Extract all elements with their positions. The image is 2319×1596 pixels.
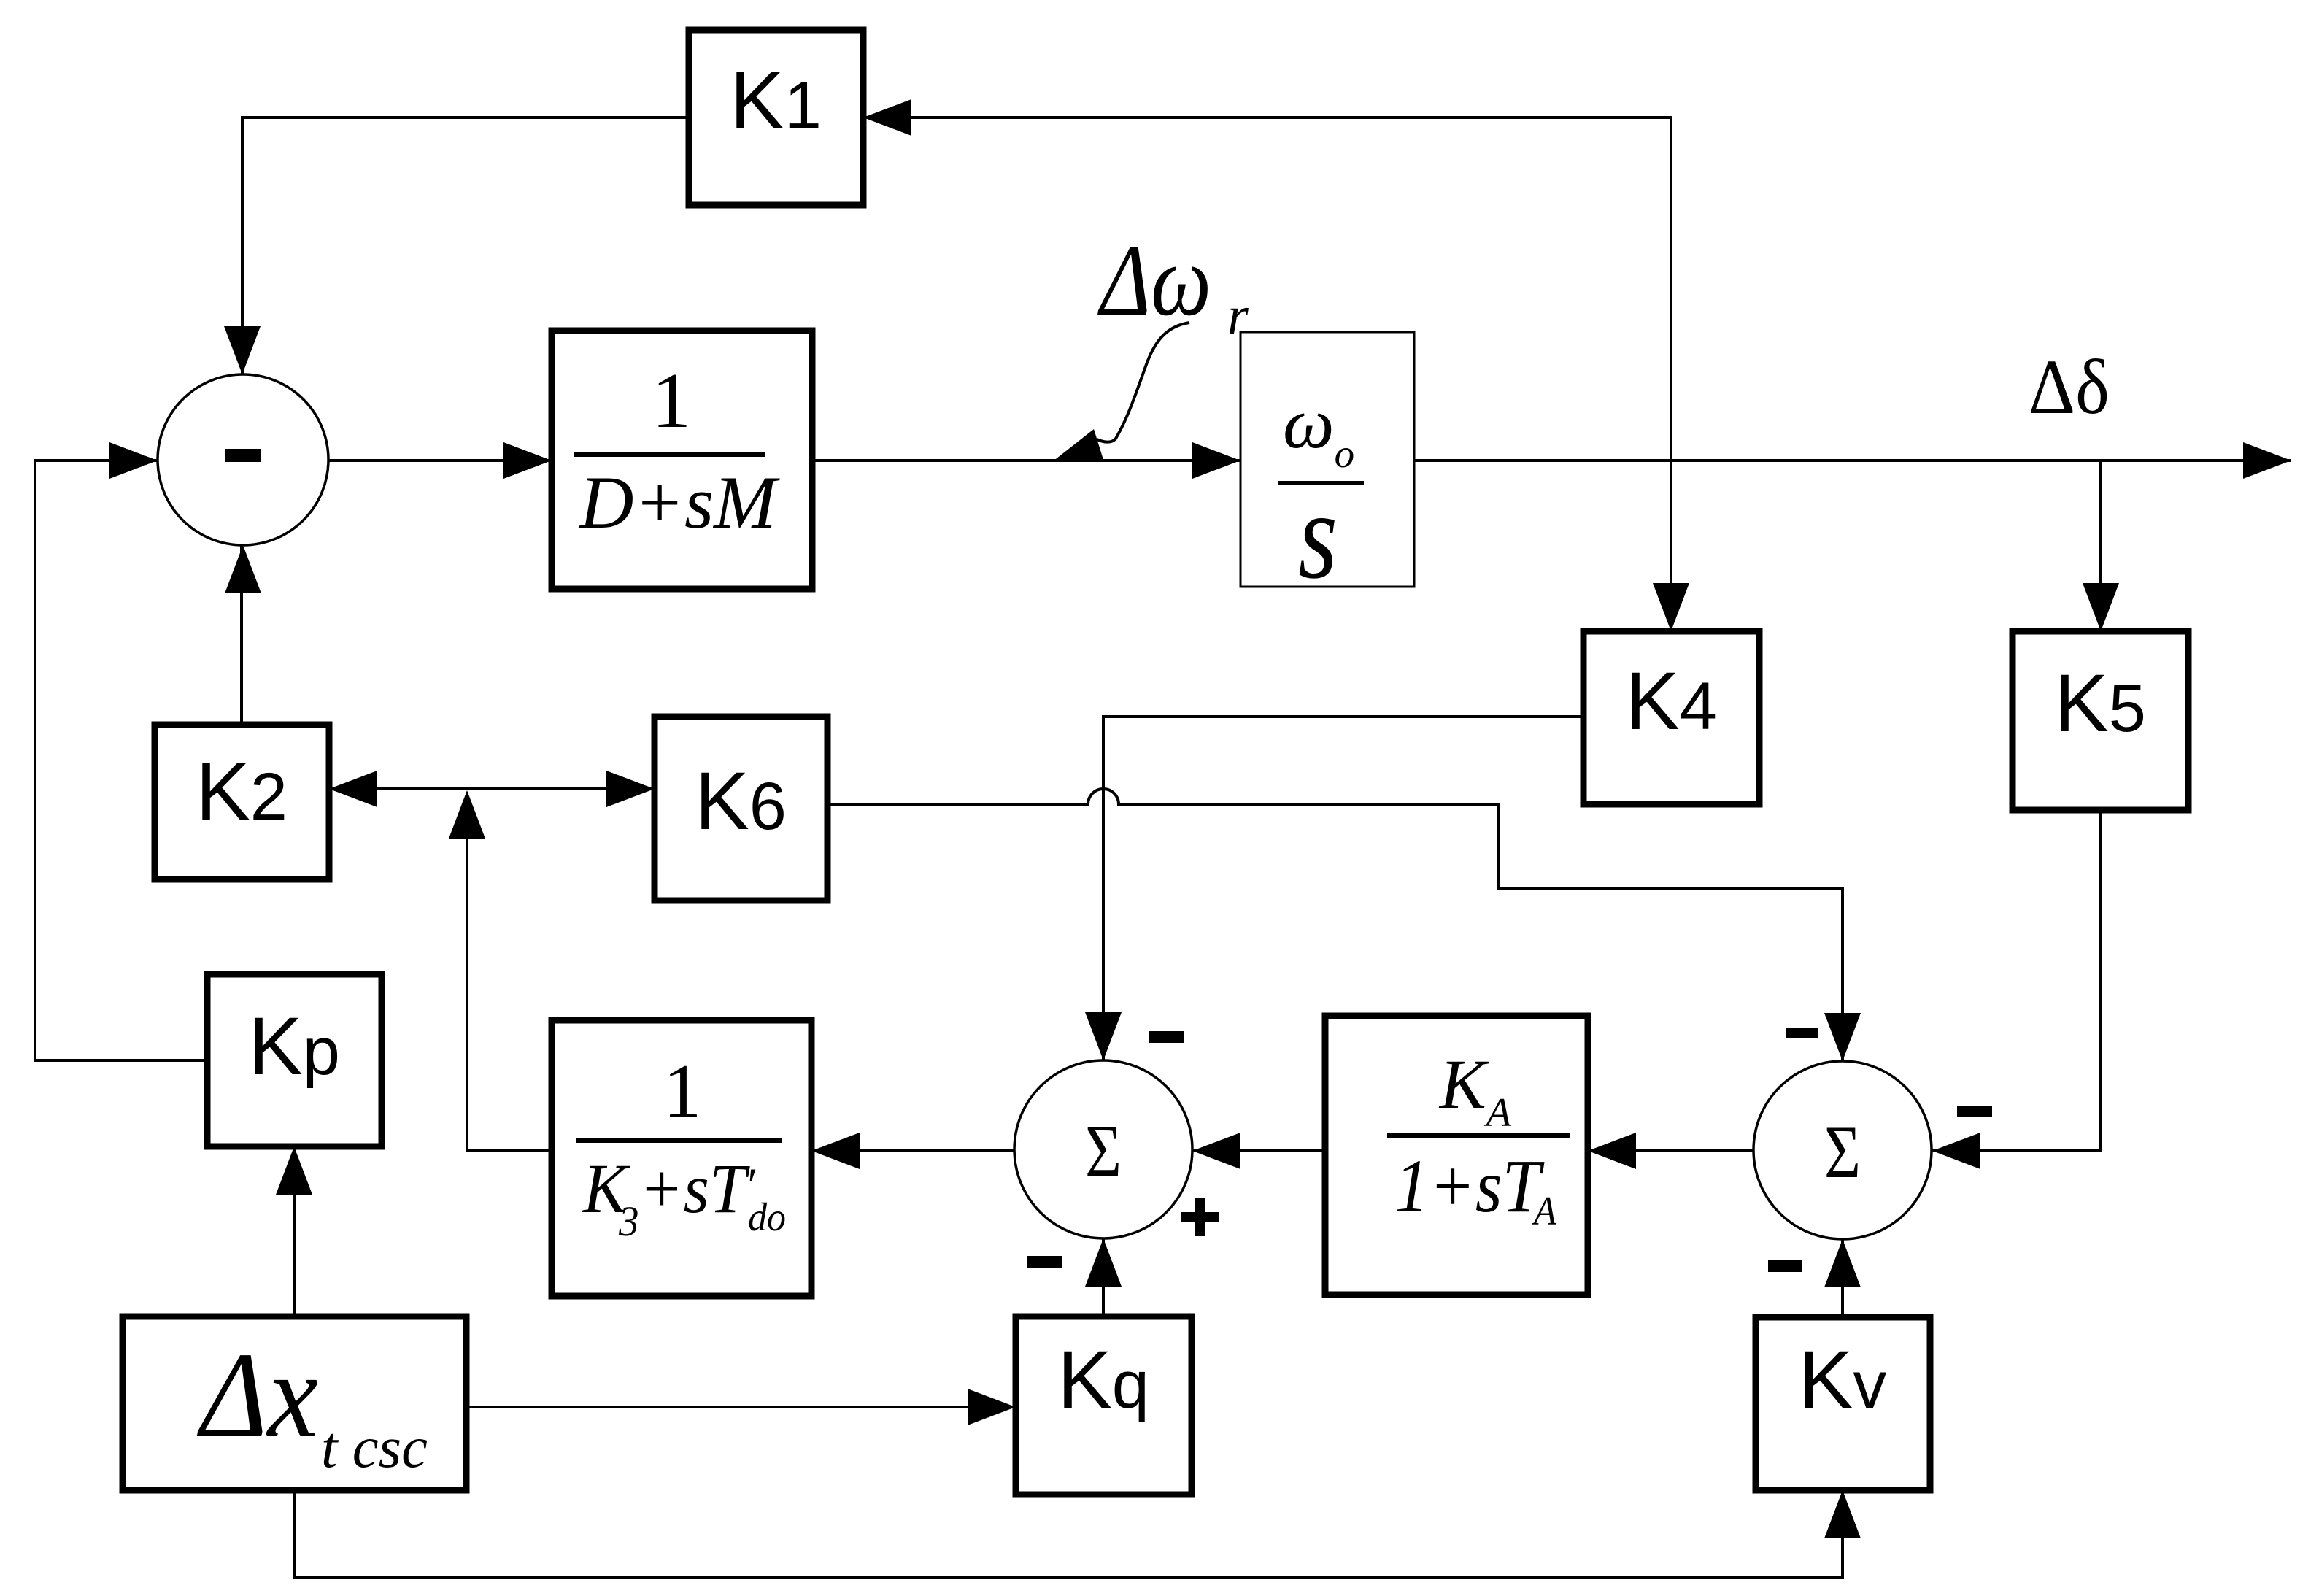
svg-text:Kv: Kv — [1799, 1334, 1887, 1425]
svg-text:r: r — [1227, 286, 1249, 346]
svg-text:K5: K5 — [2054, 658, 2146, 749]
svg-text:K1: K1 — [730, 55, 822, 146]
svg-text:Kq: Kq — [1057, 1334, 1149, 1425]
svg-text:D+sM: D+sM — [578, 461, 780, 544]
svg-text:s: s — [1298, 466, 1338, 605]
svg-text:1: 1 — [652, 358, 691, 444]
svg-text:Δω: Δω — [1097, 224, 1211, 337]
svg-text:K4: K4 — [1625, 655, 1717, 747]
svg-text:K2: K2 — [196, 746, 288, 837]
svg-text:Δδ: Δδ — [2029, 344, 2110, 431]
svg-text:Δx: Δx — [196, 1327, 318, 1463]
svg-text:1+sTA: 1+sTA — [1394, 1144, 1557, 1234]
svg-text:1: 1 — [663, 1048, 702, 1133]
svg-text:Kp: Kp — [248, 1001, 340, 1092]
svg-text:K6: K6 — [695, 755, 787, 847]
svg-text:Σ: Σ — [1824, 1111, 1861, 1194]
svg-text:Σ: Σ — [1085, 1110, 1122, 1193]
svg-text:t csc: t csc — [321, 1416, 428, 1480]
